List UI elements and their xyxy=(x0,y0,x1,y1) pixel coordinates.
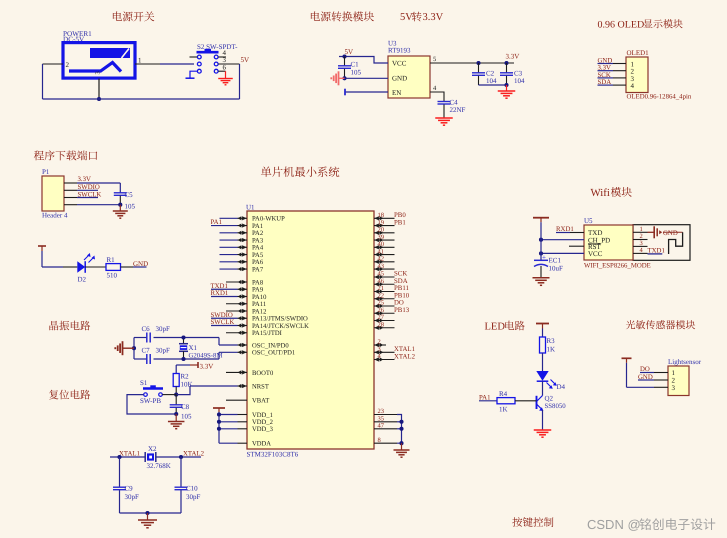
svg-text:30pF: 30pF xyxy=(156,347,171,355)
wire S2 left pin stub xyxy=(190,56,198,58)
mcu U1 STM32F103C8T6 body xyxy=(247,211,374,449)
svg-text:XTAL2: XTAL2 xyxy=(394,353,416,360)
mcu U1 comment xyxy=(247,451,299,459)
wire pin PA3 xyxy=(220,238,248,242)
wire pin PA2 xyxy=(220,231,248,235)
ground Q2 xyxy=(534,430,552,437)
svg-text:27: 27 xyxy=(378,314,385,321)
svg-text:25: 25 xyxy=(378,300,385,307)
svg-text:RXD1: RXD1 xyxy=(211,290,229,297)
mcu right pin 23 xyxy=(374,408,397,415)
svg-text:P1: P1 xyxy=(42,168,50,176)
svg-text:5V: 5V xyxy=(400,12,413,23)
svg-text:EC1: EC1 xyxy=(549,257,562,265)
power 3.3V reset xyxy=(190,362,213,371)
wire to D2 xyxy=(42,266,77,268)
svg-text:XTAL2: XTAL2 xyxy=(183,451,205,458)
net label 3.3V OLED xyxy=(598,65,611,72)
svg-text:19: 19 xyxy=(378,219,385,226)
junction XTAL1 C9 xyxy=(117,455,121,459)
svg-text:PB0: PB0 xyxy=(394,212,406,219)
wire 3.3V to R2 xyxy=(176,365,190,374)
wifi antenna xyxy=(669,232,683,254)
mcu right pin 35 xyxy=(374,416,397,423)
switch S1 SW-PB xyxy=(140,385,163,405)
svg-text:G2049S-8M: G2049S-8M xyxy=(189,353,223,360)
wire pin PA0-WKUP xyxy=(220,216,248,220)
wire S2 pin3 to 5V rail xyxy=(218,63,239,65)
svg-text:VCC: VCC xyxy=(588,250,603,258)
svg-text:SWDIO: SWDIO xyxy=(78,184,100,191)
regulator pin5 number xyxy=(433,56,436,63)
mcu pin name BOOT0 xyxy=(252,370,274,377)
junction 5V C1 xyxy=(342,54,346,58)
wire pin PA7 xyxy=(220,267,248,271)
svg-text:X2: X2 xyxy=(148,445,157,453)
wire crystal left rail xyxy=(133,338,135,360)
power 3.3V rail VDD xyxy=(213,408,225,443)
wire R2 to junction xyxy=(175,387,177,395)
svg-text:EN: EN xyxy=(392,89,401,97)
wire OSC_IN xyxy=(219,343,247,347)
wire X2 bottom rail xyxy=(120,512,182,514)
svg-text:PA9: PA9 xyxy=(252,287,264,294)
wire pin PA1 xyxy=(211,223,247,227)
wire BOOT0 stub xyxy=(226,370,247,374)
mcu pin name PA5 xyxy=(252,252,264,259)
svg-text:GND: GND xyxy=(663,230,678,237)
svg-text:R3: R3 xyxy=(547,337,556,345)
svg-text:U5: U5 xyxy=(584,217,593,225)
mcu pin name OSC_OUT/PD1 xyxy=(252,350,295,357)
svg-text:VDD_2: VDD_2 xyxy=(252,419,273,426)
junction bottom rail xyxy=(97,97,101,101)
wire gnd rail right xyxy=(397,415,402,444)
capacitor C8 xyxy=(170,395,192,421)
junction rail 8 xyxy=(399,441,403,445)
svg-text:PB10: PB10 xyxy=(394,292,410,299)
svg-text:OLED1: OLED1 xyxy=(627,49,650,57)
wire P1 pin4 gnd xyxy=(64,204,120,206)
svg-text:8: 8 xyxy=(378,437,381,444)
wire D4 to Q2 xyxy=(542,381,544,395)
ground X2 xyxy=(138,513,157,528)
power 5V net label U3 xyxy=(345,48,354,56)
ground S2 pin6 xyxy=(218,71,233,85)
connector Lightsensor body xyxy=(668,366,689,396)
svg-text:Lightsensor: Lightsensor xyxy=(668,358,702,366)
resistor R2 xyxy=(173,373,192,389)
svg-text:SDA: SDA xyxy=(394,278,408,285)
mcu right pin 3 net XTAL1 xyxy=(374,346,415,354)
title 晶振电路 xyxy=(49,321,90,331)
svg-text:3: 3 xyxy=(95,71,102,74)
power rail R3 xyxy=(536,324,549,338)
connector P1 designator xyxy=(42,168,50,176)
wire pin PA8 xyxy=(226,280,247,284)
wire pin PA15/JTDI xyxy=(226,331,247,335)
svg-text:30pF: 30pF xyxy=(125,493,140,501)
mcu pin name PA7 xyxy=(252,266,264,273)
mcu right pin 40 xyxy=(374,241,395,249)
svg-text:PB13: PB13 xyxy=(394,307,410,314)
wire Q2 emitter to gnd xyxy=(542,410,544,430)
wire C2 C3 bottoms xyxy=(479,84,507,86)
svg-text:105: 105 xyxy=(125,203,136,211)
svg-text:Q2: Q2 xyxy=(545,395,554,403)
svg-text:PB11: PB11 xyxy=(394,285,409,292)
capacitor C7 xyxy=(142,347,171,365)
svg-text:WIFI_ESP8266_MODE: WIFI_ESP8266_MODE xyxy=(584,263,651,270)
junction rail 35 xyxy=(399,420,403,424)
wire pin PA6 xyxy=(220,260,248,264)
svg-text:OSC_OUT/PD1: OSC_OUT/PD1 xyxy=(252,350,295,357)
mcu pin name PA6 xyxy=(252,259,264,266)
wire sensor pin1 xyxy=(640,372,668,374)
svg-text:BOOT0: BOOT0 xyxy=(252,370,274,377)
wire pin4 to C4 xyxy=(430,92,444,102)
svg-text:45: 45 xyxy=(378,271,385,278)
svg-text:3: 3 xyxy=(378,346,381,353)
net label DO xyxy=(640,366,650,373)
wifi pin1 xyxy=(633,226,648,233)
mcu right pin 26 net PB13 xyxy=(374,307,410,315)
svg-text:30pF: 30pF xyxy=(186,493,201,501)
mcu pin name PA9 xyxy=(252,287,264,294)
mcu pin name PA0-WKUP xyxy=(252,216,285,223)
title 电源开关 xyxy=(113,11,154,21)
net label GND sensor xyxy=(638,374,653,381)
wire R3 to D4 xyxy=(542,353,544,371)
mcu pin name PA15/JTDI xyxy=(252,330,282,337)
junction VDD_3 xyxy=(217,427,221,431)
mcu U1 designator xyxy=(246,204,255,212)
svg-text:SS8050: SS8050 xyxy=(545,403,567,410)
ground signal-earth at C1 xyxy=(331,71,344,85)
svg-text:S1: S1 xyxy=(140,379,148,387)
svg-text:18: 18 xyxy=(378,212,385,219)
wire NRST to mcu xyxy=(176,386,190,395)
title LED电路 xyxy=(485,321,525,333)
svg-text:1: 1 xyxy=(640,226,643,233)
svg-text:6: 6 xyxy=(223,64,227,72)
svg-text:22NF: 22NF xyxy=(450,106,466,114)
wire VCC xyxy=(541,252,584,254)
mcu pin name PA2 xyxy=(252,230,263,237)
svg-text:28: 28 xyxy=(378,321,385,328)
connector Lightsensor designator xyxy=(668,358,702,366)
svg-text:35: 35 xyxy=(378,416,385,423)
svg-text:PB1: PB1 xyxy=(394,219,406,226)
wire VDD_1 xyxy=(219,414,247,416)
wire XTAL1 xyxy=(110,456,145,458)
svg-text:R1: R1 xyxy=(107,256,116,264)
svg-text:Wifi: Wifi xyxy=(591,187,610,199)
resistor R1 xyxy=(106,256,121,280)
svg-text:C8: C8 xyxy=(181,403,190,411)
svg-text:PA1: PA1 xyxy=(252,223,263,230)
title 电源转换模块 xyxy=(311,11,374,21)
regulator U3 RT9193 body xyxy=(388,56,430,98)
connector P1 body xyxy=(42,176,64,211)
regulator U3 designator xyxy=(388,40,411,55)
svg-text:PA6: PA6 xyxy=(252,259,264,266)
svg-text:5: 5 xyxy=(433,56,436,63)
wire CH_PD xyxy=(541,239,584,241)
svg-text:3.3V: 3.3V xyxy=(200,363,214,371)
mcu right pin 18 net PB0 xyxy=(374,212,406,220)
junction CH_PD rail xyxy=(539,238,543,242)
ground mcu xyxy=(394,443,410,457)
wire P1 pin1 3.3V xyxy=(64,176,120,183)
title 程序下载端口 xyxy=(34,150,97,160)
title 5V转3.3V xyxy=(400,12,444,23)
wire S2 pin4 stub xyxy=(218,56,226,58)
mcu pin name PA13/JTMS/SWDIO xyxy=(252,316,308,323)
wire PA1 to R4 xyxy=(479,400,497,402)
mcu pin name PA10 xyxy=(252,294,267,301)
wifi module outline xyxy=(633,225,690,261)
connector POWER1 designator xyxy=(63,30,92,44)
mcu pin name PA14/JTCK/SWCLK xyxy=(252,323,309,330)
resistor R3 xyxy=(540,337,556,354)
mcu pin name PA4 xyxy=(252,245,264,252)
title 0.96 OLED显示模块 xyxy=(598,19,683,30)
mcu right pin 41 xyxy=(374,248,395,256)
svg-text:SWCLK: SWCLK xyxy=(78,191,102,198)
wire S1 right to junction xyxy=(162,394,176,396)
wire pin2 to bottom rail xyxy=(43,64,64,99)
svg-text:VBAT: VBAT xyxy=(252,398,269,405)
switch S2 pin numbers xyxy=(223,49,227,72)
svg-text:510: 510 xyxy=(107,272,118,280)
svg-text:21: 21 xyxy=(378,285,385,292)
ground C5 xyxy=(113,205,128,219)
switch S1 designator xyxy=(140,379,148,387)
title 光敏传感器模块 xyxy=(626,320,695,329)
svg-text:LED: LED xyxy=(485,322,506,333)
capacitor C10 xyxy=(175,457,201,513)
wire OSC_OUT xyxy=(219,350,247,354)
svg-text:0.96 OLED: 0.96 OLED xyxy=(598,20,645,31)
capacitor C2 xyxy=(472,63,497,85)
net label GND OLED xyxy=(598,58,613,65)
svg-text:105: 105 xyxy=(181,413,192,421)
connector OLED1 comment xyxy=(627,94,692,101)
mcu right pin 46 net SDA xyxy=(374,278,408,286)
capacitor C4 xyxy=(438,99,466,119)
mcu right pin 4 net XTAL2 xyxy=(374,353,416,361)
svg-text:PA15/JTDI: PA15/JTDI xyxy=(252,330,282,337)
svg-text:5V: 5V xyxy=(241,56,250,64)
svg-text:30pF: 30pF xyxy=(156,325,171,333)
wire P1 pin2 SWDIO xyxy=(64,184,100,191)
svg-text:2: 2 xyxy=(378,339,381,346)
svg-text:104: 104 xyxy=(486,77,497,85)
svg-text:1: 1 xyxy=(138,57,142,65)
wire D2 to R1 xyxy=(85,266,106,268)
ground C3 xyxy=(498,85,516,98)
svg-text:PA8: PA8 xyxy=(252,279,264,286)
ground reset xyxy=(168,414,185,429)
svg-text:42: 42 xyxy=(378,256,385,263)
svg-text:10K: 10K xyxy=(181,381,193,389)
svg-text:PA2: PA2 xyxy=(252,230,263,237)
wire R4 to base xyxy=(515,400,537,402)
svg-text:SWCLK: SWCLK xyxy=(211,319,235,326)
junction VDD_1 xyxy=(217,412,221,416)
wire VDD_2 xyxy=(219,421,247,423)
wire pin PA13/JTMS/SWDIO net SWDIO xyxy=(211,312,248,320)
mcu pin name VDDA xyxy=(252,441,271,448)
power 3.3V label xyxy=(506,53,520,61)
svg-text:46: 46 xyxy=(378,278,385,285)
connector OLED1 body xyxy=(626,57,648,93)
mcu right pin 47 xyxy=(374,423,397,430)
svg-text:PA4: PA4 xyxy=(252,245,264,252)
svg-text:VDD_1: VDD_1 xyxy=(252,412,273,419)
svg-text:PA13/JTMS/SWDIO: PA13/JTMS/SWDIO xyxy=(252,316,308,323)
svg-text:PA5: PA5 xyxy=(252,252,264,259)
title 按键控制 xyxy=(512,517,553,527)
title 单片机最小系统 xyxy=(261,166,339,176)
wifi U5 designator xyxy=(584,217,593,225)
svg-text:3.3V: 3.3V xyxy=(506,53,520,61)
svg-text:32.768K: 32.768K xyxy=(147,462,171,470)
svg-text:GND: GND xyxy=(392,75,407,83)
mcu right pin 25 net DO xyxy=(374,300,404,308)
svg-text:R2: R2 xyxy=(181,373,190,381)
svg-text:D4: D4 xyxy=(557,383,566,391)
wire VCC pin xyxy=(339,57,388,64)
wire connector bottom pin xyxy=(98,79,100,100)
transistor Q2 SS8050 xyxy=(537,395,567,412)
svg-text:GND: GND xyxy=(133,260,148,268)
mcu pin name VDD_1 xyxy=(252,412,273,419)
wifi pin4 net TXD1 xyxy=(633,247,665,254)
mcu pin name PA8 xyxy=(252,279,264,286)
svg-text:3.3V: 3.3V xyxy=(423,12,444,23)
svg-text:VDD_3: VDD_3 xyxy=(252,426,274,433)
svg-text:C5: C5 xyxy=(125,191,134,199)
svg-text:PA0-WKUP: PA0-WKUP xyxy=(252,216,285,223)
resistor R4 xyxy=(497,390,515,414)
junction X1 top xyxy=(181,335,185,339)
mcu pin name NRST xyxy=(252,383,269,390)
svg-text:PA10: PA10 xyxy=(252,294,267,301)
wire GND pin xyxy=(345,77,389,79)
svg-text:23: 23 xyxy=(378,408,385,415)
wifi U5 comment xyxy=(584,263,651,270)
capacitor C1 xyxy=(338,57,362,79)
mcu right pin 21 net PB11 xyxy=(374,285,409,293)
svg-text:U1: U1 xyxy=(246,204,255,212)
wire crystal top rail xyxy=(134,338,219,346)
mcu pin name OSC_IN/PD0 xyxy=(252,342,289,349)
svg-text:PA1: PA1 xyxy=(211,219,222,226)
svg-text:PA14/JTCK/SWCLK: PA14/JTCK/SWCLK xyxy=(252,323,309,330)
crystal X1 xyxy=(179,338,223,360)
wire OLED pin3 xyxy=(598,77,627,79)
led D2 xyxy=(77,253,95,284)
mcu right pin 45 net SCK xyxy=(374,271,407,279)
wifi pin2 xyxy=(633,233,648,240)
net label SDA OLED xyxy=(598,79,612,86)
capacitor C3 xyxy=(500,63,525,85)
junction X2 gnd xyxy=(145,511,149,515)
svg-text:26: 26 xyxy=(378,307,385,314)
connector OLED1 designator xyxy=(627,49,650,57)
svg-text:3.3V: 3.3V xyxy=(78,176,91,183)
svg-text:104: 104 xyxy=(514,77,525,85)
junction C3 gnd xyxy=(504,83,508,87)
wire sensor pin3 xyxy=(627,386,669,388)
svg-text:SW-PB: SW-PB xyxy=(140,397,161,405)
junction C2 xyxy=(476,61,480,65)
wire RXD1 to TXD xyxy=(556,232,584,234)
wire pin5 to 3.3V xyxy=(430,62,514,64)
svg-text:2: 2 xyxy=(66,61,70,69)
svg-text:C7: C7 xyxy=(142,347,151,355)
svg-text:20: 20 xyxy=(378,227,385,234)
svg-text:3: 3 xyxy=(672,384,676,392)
mcu pin name PA3 xyxy=(252,237,264,244)
wire EN pin xyxy=(345,89,388,96)
svg-text:DO: DO xyxy=(394,300,404,307)
wire pin PA9 net TXD1 xyxy=(211,283,248,291)
svg-text:S2 SW-SPDT-: S2 SW-SPDT- xyxy=(197,43,238,51)
svg-text:R4: R4 xyxy=(499,390,508,398)
mcu right pin 20 xyxy=(374,227,395,235)
svg-text:X1: X1 xyxy=(189,344,198,352)
svg-text:D2: D2 xyxy=(78,276,87,284)
mcu right pin 22 net PB10 xyxy=(374,292,410,300)
switch S2 SW-SPDT body xyxy=(197,49,219,73)
net label GND D2 xyxy=(133,260,148,268)
crystal X2 xyxy=(145,445,171,470)
svg-text:VDDA: VDDA xyxy=(252,441,271,448)
svg-text:40: 40 xyxy=(378,241,385,248)
ground C4 xyxy=(435,118,453,125)
svg-text:TXD1: TXD1 xyxy=(211,283,228,290)
svg-text:PA3: PA3 xyxy=(252,237,264,244)
wire pin PA4 xyxy=(220,245,248,249)
capacitor C5 xyxy=(114,183,136,211)
junction C8 gnd xyxy=(174,412,178,416)
svg-text:CSDN @: CSDN @ xyxy=(587,517,641,532)
net label XTAL1 xyxy=(119,451,140,458)
wire VDDA xyxy=(219,442,247,444)
net label PA1 base xyxy=(479,394,490,401)
junction C3 xyxy=(504,61,508,65)
mcu right pin 27 xyxy=(374,314,395,322)
junction C5 gnd xyxy=(118,203,122,207)
wire OLED pin4 xyxy=(598,84,627,86)
junction XTAL2 C10 xyxy=(179,455,183,459)
wire sensor pin2 xyxy=(638,379,668,381)
svg-text:PA7: PA7 xyxy=(252,266,264,273)
wire pin1 to switch S2 xyxy=(135,63,194,65)
power rail D2 xyxy=(38,246,46,267)
svg-text:43: 43 xyxy=(378,263,385,270)
mcu pin name PA12 xyxy=(252,308,266,315)
wire XTAL2 xyxy=(156,456,201,458)
svg-text:1K: 1K xyxy=(547,346,556,354)
mcu right pin 39 xyxy=(374,234,395,242)
svg-text:47: 47 xyxy=(378,423,385,430)
wire S1 left to gnd xyxy=(127,395,176,414)
mcu right pin 8 xyxy=(374,437,397,444)
